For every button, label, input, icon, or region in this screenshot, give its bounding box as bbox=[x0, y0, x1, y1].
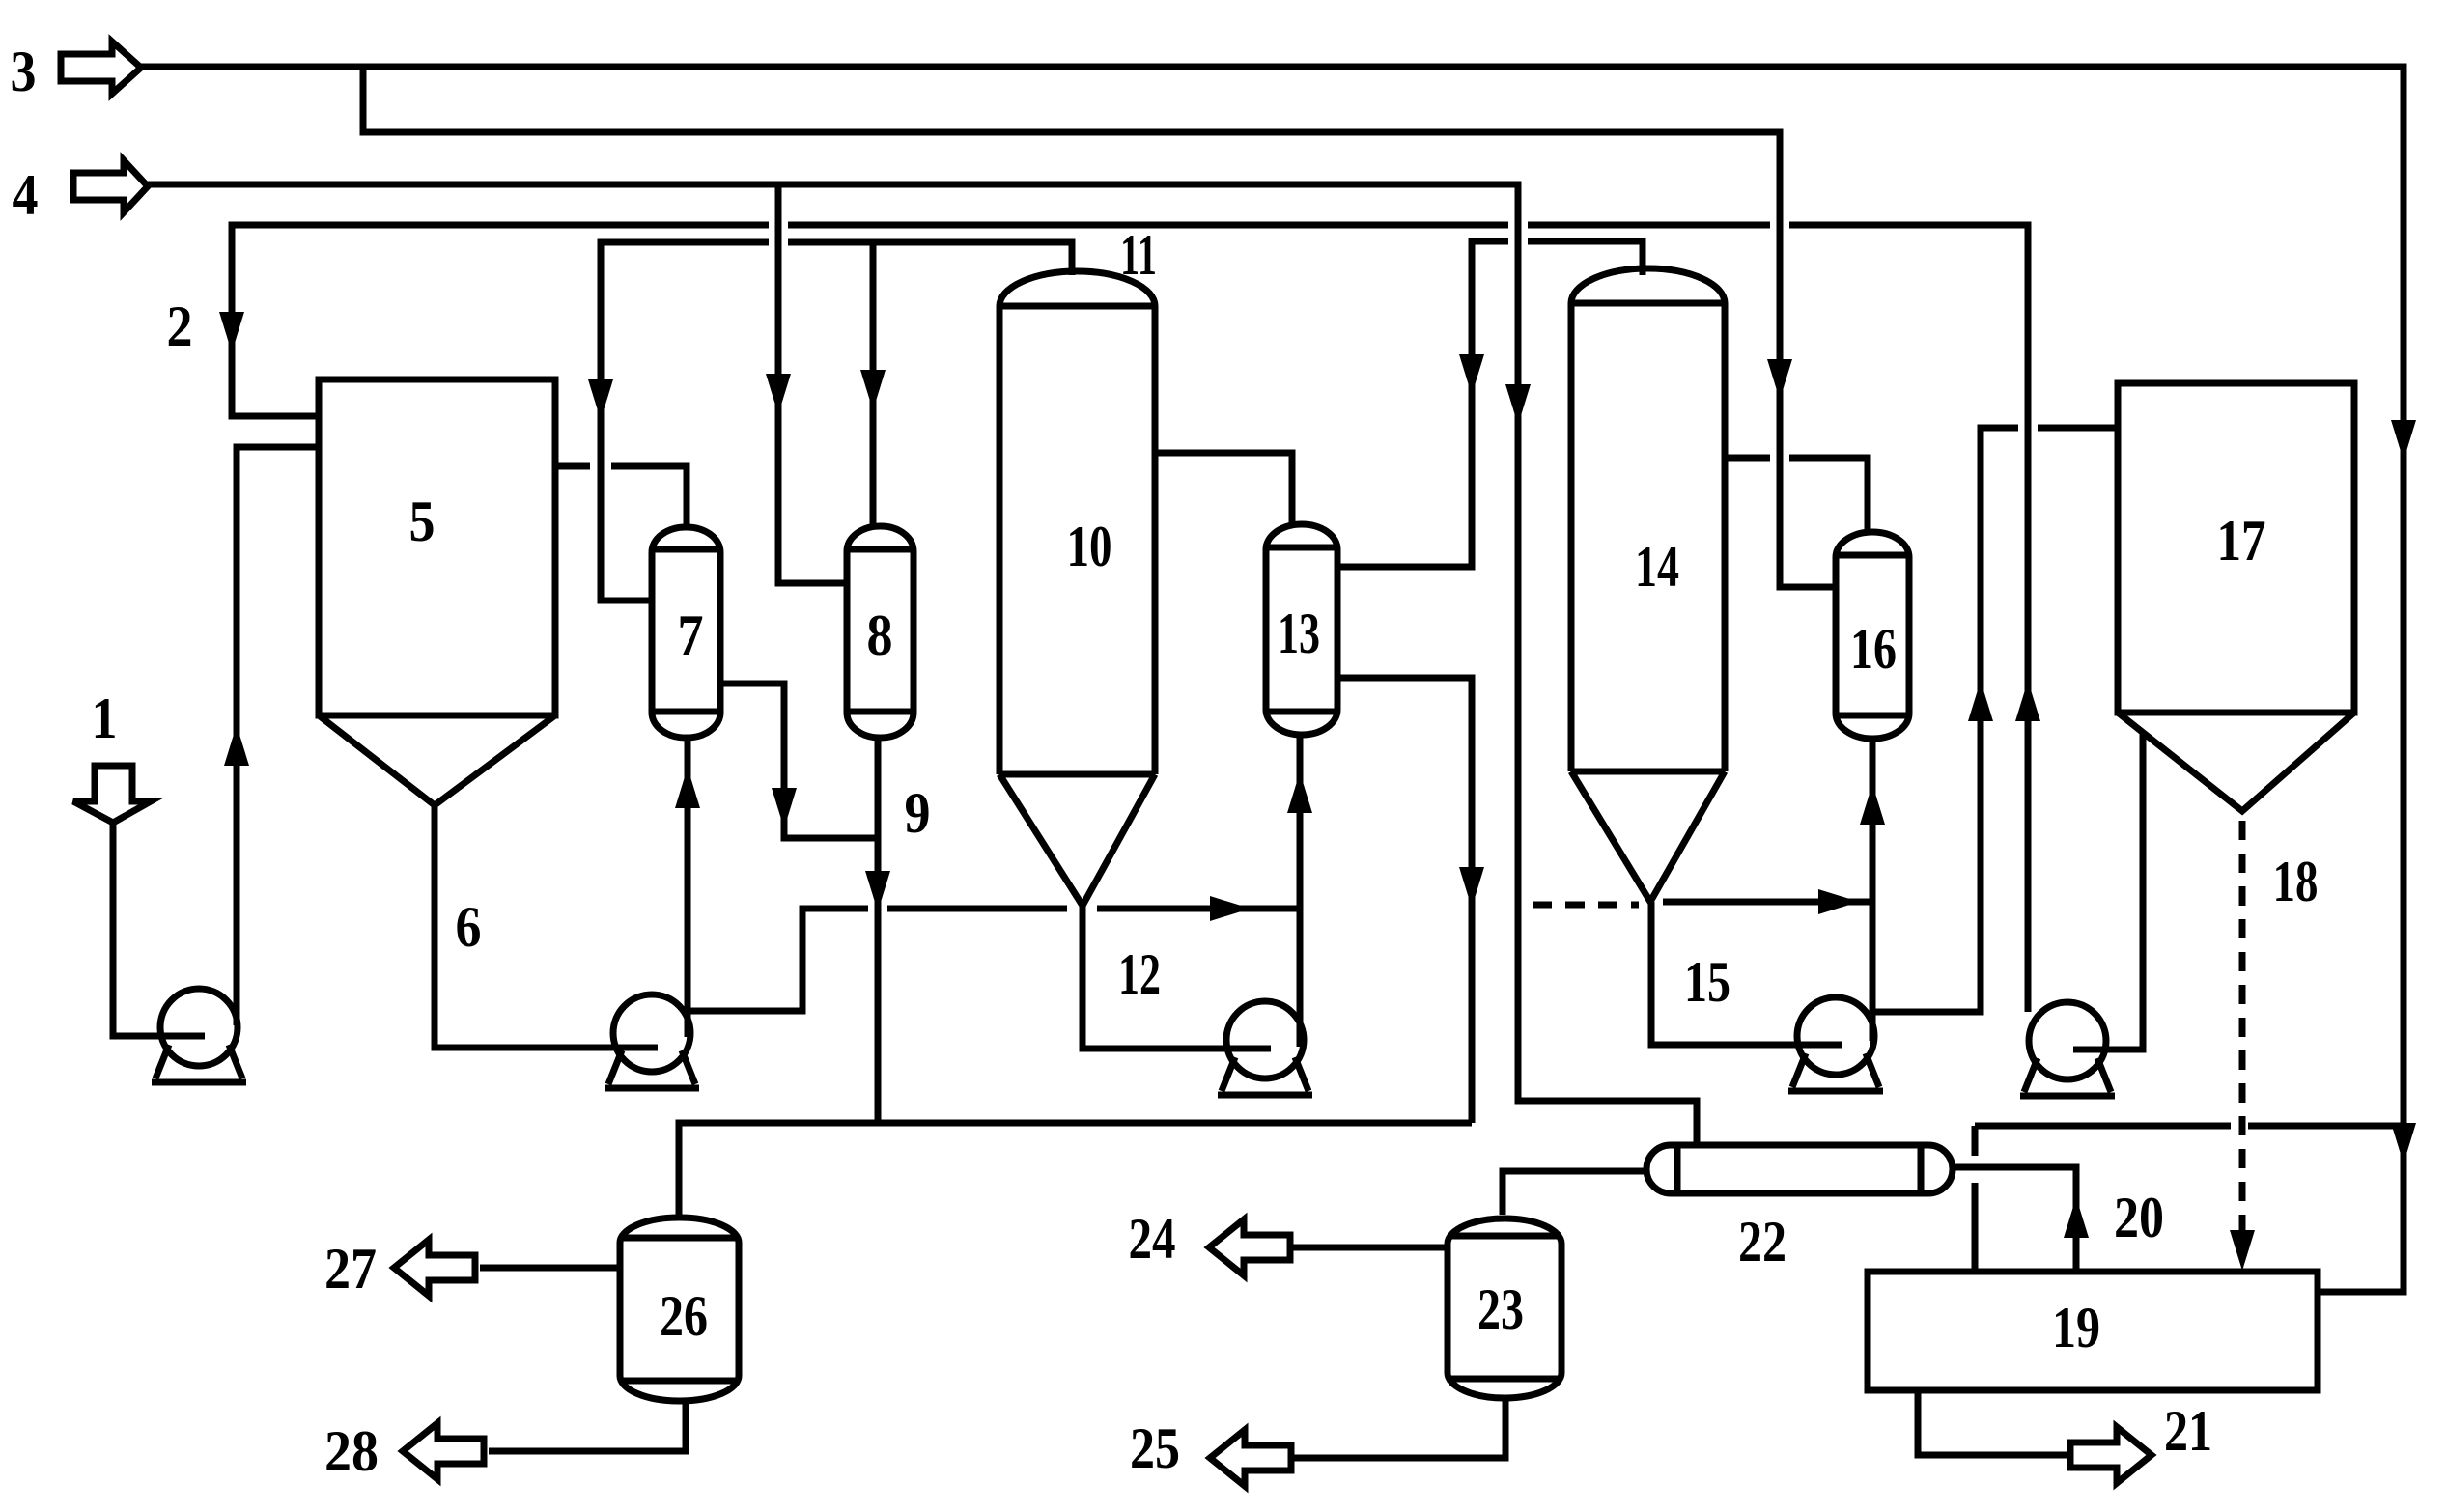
svg-text:9: 9 bbox=[905, 781, 931, 845]
svg-text:25: 25 bbox=[1130, 1416, 1180, 1480]
svg-text:26: 26 bbox=[660, 1284, 708, 1348]
svg-text:28: 28 bbox=[324, 1419, 379, 1483]
wire stream 4 branch to vessel 8 bbox=[778, 184, 847, 583]
wire column 10 tip to pump P3 bbox=[1083, 906, 1271, 1049]
arrowhead stream 9 down bbox=[865, 871, 890, 911]
arrowhead pump P1 discharge up bbox=[224, 725, 249, 766]
arrowhead recycle up bbox=[2015, 681, 2040, 721]
svg-text:22: 22 bbox=[1738, 1210, 1786, 1274]
arrowhead pump P2 riser up bbox=[675, 768, 700, 808]
pump P1 bbox=[152, 989, 246, 1082]
arrowhead stream 4 down bbox=[1505, 384, 1531, 425]
svg-text:16: 16 bbox=[1850, 617, 1897, 681]
svg-text:8: 8 bbox=[867, 603, 893, 667]
hollow arrow stream 3 bbox=[61, 42, 141, 94]
svg-text:4: 4 bbox=[13, 163, 39, 227]
arrowhead to tank 17 up bbox=[1968, 681, 1993, 721]
wire stream 6 tank 5 bottoms to pump P2 bbox=[435, 805, 658, 1048]
arrowhead stream 18 down bbox=[2230, 1230, 2255, 1271]
arrowhead stream 15 right bbox=[1818, 889, 1859, 914]
svg-text:27: 27 bbox=[324, 1237, 377, 1301]
arrowhead stream 2 down bbox=[219, 312, 244, 352]
vessel 13 bbox=[1266, 524, 1337, 735]
arrowhead vessel 7 outlet down bbox=[772, 788, 797, 828]
hollow arrow stream 27 bbox=[394, 1240, 475, 1296]
hollow arrow stream 4 bbox=[73, 160, 148, 212]
arrowhead stream 20 up bbox=[2064, 1197, 2089, 1238]
arrowhead vessel 13 bottoms down bbox=[1459, 867, 1484, 908]
arrowhead stream 12 right bbox=[1210, 896, 1251, 921]
svg-text:24: 24 bbox=[1129, 1207, 1176, 1271]
svg-text:12: 12 bbox=[1118, 942, 1161, 1006]
svg-text:17: 17 bbox=[2217, 509, 2266, 573]
arrowhead into vessel 13 right down bbox=[1459, 354, 1484, 395]
wire stream 9 vessel 8 bottoms bbox=[875, 738, 882, 1123]
svg-text:1: 1 bbox=[92, 686, 118, 750]
box 19 bbox=[1868, 1272, 2318, 1390]
svg-text:10: 10 bbox=[1067, 515, 1112, 578]
wire vessel 13 bottoms to vessel 26 header bbox=[1337, 678, 1472, 1123]
arrowhead pump P3 riser up bbox=[1287, 772, 1312, 813]
arrowhead stream 3 right side down lower bbox=[2391, 1123, 2416, 1163]
wire stream 24 from vessel 23 bbox=[1290, 1245, 1448, 1251]
svg-text:15: 15 bbox=[1684, 950, 1730, 1014]
wire stream 4 header to vessel 22 bbox=[148, 184, 1697, 1145]
column 14 bbox=[1571, 268, 1725, 902]
wire stream 2 recycle header bbox=[232, 225, 2028, 1012]
wire stream 15 dashed approach bbox=[1533, 902, 1639, 909]
svg-text:21: 21 bbox=[2164, 1399, 2212, 1463]
wire column 14 side outlet to vessel 16 top bbox=[1725, 458, 1868, 532]
svg-text:5: 5 bbox=[409, 490, 436, 553]
hollow arrow stream 28 bbox=[403, 1423, 484, 1479]
arrowhead stream 3 right side down upper bbox=[2391, 420, 2416, 461]
wire tank 5 outlet to vessel 7 top bbox=[555, 466, 687, 527]
wire box 19 top feed line bbox=[1975, 1126, 2404, 1272]
wire column 14 overhead to vessel 13 bbox=[1337, 241, 1643, 567]
vessel 8 bbox=[847, 526, 914, 738]
wire pump P2 riser to vessel 7 bbox=[685, 738, 691, 1037]
wire stream 12 to vessel 13 riser bbox=[1097, 906, 1300, 912]
arrowhead pump P4 riser up bbox=[1860, 784, 1885, 825]
svg-text:19: 19 bbox=[2052, 1296, 2100, 1359]
wire stream 21 from box 19 bbox=[1918, 1390, 2070, 1455]
svg-text:14: 14 bbox=[1635, 535, 1679, 599]
hollow arrow stream 1 bbox=[73, 766, 151, 823]
vessel 7 bbox=[652, 527, 720, 738]
tank 5 bbox=[319, 379, 555, 805]
arrowhead stream 3 branch down bbox=[1767, 359, 1792, 400]
pump P5 bbox=[2020, 1002, 2115, 1096]
wire column 10 side outlet to vessel 13 top bbox=[1155, 453, 1292, 524]
svg-text:20: 20 bbox=[2114, 1186, 2164, 1249]
tank 17 bbox=[2118, 383, 2354, 811]
svg-text:6: 6 bbox=[456, 895, 482, 959]
wire pump P3 riser to vessel 13 bbox=[1297, 735, 1304, 1047]
wire stream 25 vessel 23 bottoms bbox=[1291, 1398, 1505, 1458]
wire vessel 22 to vessel 23 bbox=[1503, 1171, 1646, 1215]
svg-text:7: 7 bbox=[678, 603, 704, 667]
wire column 14 tip to pump P4 and tank 17 bbox=[1651, 428, 2118, 1045]
svg-text:2: 2 bbox=[167, 294, 193, 358]
wire pump P4 riser to vessel 16 bbox=[1870, 739, 1876, 1041]
wire stream 15 arrow to vessel 16 riser bbox=[1663, 899, 1872, 906]
wire vessel 7 outlet joining stream 9 bbox=[720, 684, 878, 838]
wire tank 17 funnel draw to pump P5 bbox=[2073, 733, 2143, 1050]
wire bottom header into vessel 26 bbox=[679, 1123, 1472, 1218]
wire stream 28 vessel 26 bottoms bbox=[489, 1401, 686, 1451]
wire pump P2 branch to column 10 tip bbox=[689, 909, 1067, 1011]
arrowhead into vessel 7 line down bbox=[588, 379, 613, 420]
vessel 16 bbox=[1836, 532, 1909, 739]
wire stream 27 from vessel 26 bbox=[480, 1265, 620, 1272]
wire stream 3 branch to vessel 16 bbox=[363, 67, 1836, 587]
wire stream 20 box 19 to vessel 22 bbox=[1953, 1167, 2076, 1272]
svg-text:18: 18 bbox=[2273, 850, 2319, 913]
arrowhead into vessel 8 top down bbox=[860, 370, 886, 410]
hollow arrow stream 25 bbox=[1210, 1430, 1291, 1486]
column 10 bbox=[999, 271, 1155, 906]
svg-text:13: 13 bbox=[1278, 602, 1320, 665]
hollow arrow stream 21 bbox=[2070, 1427, 2152, 1483]
vessel 22 bbox=[1646, 1145, 1953, 1193]
pump P3 bbox=[1218, 1001, 1312, 1095]
svg-text:23: 23 bbox=[1477, 1277, 1524, 1341]
svg-text:11: 11 bbox=[1120, 223, 1157, 287]
pump P2 bbox=[605, 994, 699, 1088]
wire stream 1 feed to pump P1 bbox=[113, 823, 205, 1036]
vessel 23 bbox=[1448, 1218, 1561, 1398]
wire pump P1 discharge to tank 5 bbox=[237, 447, 319, 1025]
hollow arrow stream 24 bbox=[1209, 1219, 1290, 1275]
svg-text:3: 3 bbox=[11, 40, 37, 103]
pump P4 bbox=[1788, 997, 1883, 1091]
vessel 26 bbox=[620, 1218, 739, 1401]
arrowhead stream 4 branch down bbox=[766, 374, 791, 414]
wire column 10 overhead to vessels 7 and 8 bbox=[601, 242, 1072, 601]
wire stream 18 dashed tank 17 bottoms bbox=[2239, 821, 2246, 1249]
wire stream 3 top header bbox=[141, 67, 2404, 1292]
